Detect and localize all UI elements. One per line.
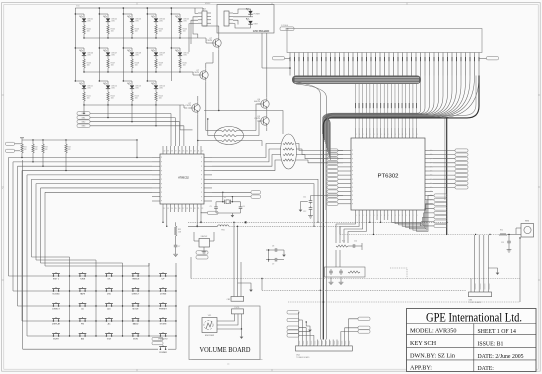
node matrix label 2 <box>152 342 163 345</box>
node VFD grid pin <box>420 53 422 76</box>
wire LED column cathode drop <box>179 105 181 130</box>
switch SW9 DIRECT <box>132 290 134 292</box>
wire U2 bottom mid drops <box>369 220 371 222</box>
node VFD grid pin <box>348 53 350 76</box>
svg-text:C1815: C1815 <box>193 72 200 74</box>
wire row1 bus to Q1 <box>180 37 206 39</box>
node CN4 net label left <box>287 334 299 337</box>
wire key row <box>48 275 176 277</box>
node U1 left pin 9 <box>152 191 160 193</box>
node VFD grid pin <box>411 53 413 76</box>
node U2 bottom pin 13 <box>401 210 403 220</box>
wire row3 bus to Q3 <box>156 104 184 106</box>
node VFD grid pin <box>469 53 471 76</box>
node U2 top pin 6 <box>376 128 378 138</box>
svg-text:R51: R51 <box>500 230 503 232</box>
wire LED row bus <box>84 37 180 39</box>
node U1 top pin 3 <box>170 146 172 154</box>
node U2 bottom pin 7 <box>380 210 382 220</box>
node U2 top pin 10 <box>390 128 392 138</box>
node U1 left pin 8 <box>152 187 160 189</box>
node U2 top pin 13 <box>401 128 403 138</box>
wire comb curl <box>326 76 444 145</box>
node VFD grid pin <box>334 53 336 76</box>
switch SW10 DOWN <box>160 290 162 292</box>
svg-text:19: 19 <box>190 208 192 210</box>
node U2 bottom pin 14 <box>405 210 407 220</box>
svg-text:18: 18 <box>186 208 188 210</box>
svg-text:TREBLE: TREBLE <box>132 279 140 281</box>
wire CN4 pin <box>340 340 342 346</box>
wire VFD bus band <box>292 76 421 84</box>
node U2 bottom pin 15 <box>408 210 410 220</box>
wire LED column feed <box>146 8 148 81</box>
LED D109 <box>147 47 156 49</box>
wire pull-up to bus <box>65 157 67 171</box>
svg-text:MODEL: AVR350: MODEL: AVR350 <box>410 328 456 335</box>
node U2 right pin 8 <box>425 182 433 184</box>
node U1 right pin 8 <box>204 187 212 189</box>
resistor FL2 element 1 <box>283 148 294 150</box>
wire band to PT6302 pin <box>362 84 364 128</box>
wire CN4 pin <box>344 340 346 346</box>
svg-text:100: 100 <box>159 98 162 100</box>
wire CN4 pin <box>332 340 334 346</box>
node U2 bottom pin 16 <box>412 210 414 220</box>
node U2 right pin 9 <box>425 186 433 188</box>
wire band to PT6302 pin <box>365 84 367 128</box>
wire CN4 label right <box>341 332 358 340</box>
capacitor C14 <box>351 245 353 247</box>
svg-text:100: 100 <box>183 65 186 67</box>
node VFD grid pin <box>339 53 341 76</box>
svg-text:P: P <box>161 162 162 164</box>
wire key column <box>148 263 150 336</box>
node KS2 bus label <box>77 120 90 123</box>
switch SW25 FM/AUTO <box>160 335 162 337</box>
svg-text:100: 100 <box>159 65 162 67</box>
node U2 right pin 10 <box>425 191 433 193</box>
switch SW22 AM <box>79 335 81 337</box>
wire U2 bottom fan <box>391 220 434 226</box>
svg-text:A.D: A.D <box>107 308 111 311</box>
wire U1 to FL2 <box>212 160 281 171</box>
svg-text:TUNE: TUNE <box>80 279 86 281</box>
wire comb curl <box>324 76 479 161</box>
node comb right label <box>487 57 499 60</box>
resistor R107 <box>107 56 109 59</box>
wire LED row bus <box>84 104 156 106</box>
svg-text:P: P <box>352 175 353 177</box>
node U1 right pin 10 <box>204 196 212 198</box>
wire band tail B <box>296 84 326 340</box>
svg-text:EXIT 1: EXIT 1 <box>53 279 60 281</box>
svg-text:17: 17 <box>183 208 185 210</box>
svg-text:KS1: KS1 <box>82 117 85 119</box>
wire comb curl <box>327 76 452 149</box>
resistor R22 pull-up <box>32 140 34 144</box>
wire key row <box>48 290 176 292</box>
node VFD label <box>280 27 294 31</box>
wire U2 bottom fan <box>417 196 435 232</box>
svg-text:C12: C12 <box>303 211 306 213</box>
svg-text:AT89C52: AT89C52 <box>178 176 189 180</box>
wire stepped <box>390 268 407 279</box>
resistor FL1 element 0 <box>221 129 237 131</box>
switch SW6 SOUND <box>53 290 55 292</box>
wire CN4 label <box>299 328 306 340</box>
LED D102 <box>99 13 108 15</box>
node U2 right pin 3 <box>425 162 433 164</box>
svg-text:DATE:: DATE: <box>478 366 495 372</box>
svg-text:VR1: VR1 <box>208 315 212 317</box>
node VFD grid pin <box>433 53 435 76</box>
node U2 left pin label <box>327 202 338 205</box>
wire key column <box>175 263 177 336</box>
node U1 bottom pin 11 <box>200 204 202 212</box>
wire reset <box>194 240 199 242</box>
wire key row <box>48 335 176 337</box>
svg-text:DISPLAY: DISPLAY <box>52 323 61 326</box>
node VFD grid pin <box>316 53 318 76</box>
ground crystal <box>215 211 217 213</box>
node VFD grid pin <box>393 53 395 76</box>
wire U2 bottom fan <box>399 217 434 225</box>
transistor Q2 <box>200 71 208 79</box>
wire band to PT6302 pin <box>394 84 396 128</box>
node U2 net label <box>434 216 447 219</box>
svg-text:P: P <box>201 196 202 198</box>
svg-text:39: 39 <box>167 151 169 153</box>
wire pull-up to bus <box>42 157 44 166</box>
svg-text:APP.BY:: APP.BY: <box>410 365 432 372</box>
wire CN6 pin <box>483 235 485 292</box>
svg-text:P: P <box>161 175 162 177</box>
svg-text:VOLUME BOARD: VOLUME BOARD <box>200 347 251 354</box>
node U2 top pin 1 <box>358 128 360 138</box>
node VFD grid pin <box>406 53 408 76</box>
resistor FL2 element 2 <box>283 153 294 155</box>
wire to IR <box>507 233 521 235</box>
wire key matrix bus <box>13 161 152 163</box>
svg-text:100: 100 <box>111 98 114 100</box>
node U1 right pin 2 <box>204 161 212 163</box>
wire CN4 pin <box>309 340 311 346</box>
node U2 right pin 5 <box>425 170 433 172</box>
node U2 right pin 12 <box>425 199 433 201</box>
node U2 left pin 11 <box>343 195 351 197</box>
switch SW26 POWER <box>160 348 162 350</box>
node U2 net label <box>434 203 447 206</box>
node U2 right pin label <box>455 157 468 160</box>
node U2 bottom pin 2 <box>362 210 364 220</box>
svg-text:100: 100 <box>135 98 138 100</box>
node U1 top pin 11 <box>200 146 202 154</box>
node U2 net label <box>434 224 447 227</box>
node VFD grid pin <box>330 53 332 76</box>
node U2 bottom pin 3 <box>365 210 367 220</box>
svg-text:P: P <box>430 171 431 173</box>
node U2 left pin label <box>327 165 338 168</box>
node U2 right pin label <box>455 165 468 168</box>
wire display bus trunk A <box>446 118 448 235</box>
node U1 right pin 11 <box>204 200 212 202</box>
svg-text:MODE: MODE <box>133 309 140 311</box>
node VFD grid pin <box>456 53 458 76</box>
wire CN4 pin <box>317 340 319 346</box>
oscillator box <box>325 267 366 277</box>
node KS3 bus label <box>77 124 90 127</box>
node U1 bottom pin 3 <box>170 204 172 212</box>
node U2 right pin label <box>455 174 468 177</box>
svg-text:40: 40 <box>164 151 166 153</box>
node VFD grid pin <box>303 53 305 76</box>
switch SW4 TREBLE <box>132 275 134 277</box>
ground C15 <box>508 245 510 248</box>
transistor Q4 <box>261 100 269 108</box>
rotary encoder VR1 <box>202 318 217 333</box>
svg-text:STORE: STORE <box>160 324 168 326</box>
wire key matrix bus <box>9 157 153 159</box>
node U2 right pin label <box>455 149 468 152</box>
wire band tail A <box>294 82 320 340</box>
svg-text:P: P <box>161 196 162 198</box>
node CN4 net label left <box>287 326 299 329</box>
capacitor C9 <box>266 259 273 261</box>
wire LED row bus <box>84 71 180 73</box>
svg-text:37: 37 <box>175 151 177 153</box>
svg-text:SOUND: SOUND <box>52 294 60 296</box>
switch SW17 FM <box>79 320 81 322</box>
switch SW21 MUTE <box>53 335 55 337</box>
svg-text:LED BOARD: LED BOARD <box>253 29 269 33</box>
inductor FB1 <box>218 225 221 226</box>
svg-text:C1815: C1815 <box>254 118 261 120</box>
resistor R110 <box>179 56 181 59</box>
node U2 top pin 4 <box>369 128 371 138</box>
node U2 left pin label <box>327 153 338 156</box>
wire key matrix bus <box>41 187 153 189</box>
ground C8 <box>283 253 285 255</box>
node U1 bottom pin 4 <box>173 204 175 212</box>
node U2 right pin 7 <box>425 178 433 180</box>
svg-text:33: 33 <box>190 151 192 153</box>
wire encoder <box>217 314 235 321</box>
node VFD grid pin <box>312 53 314 76</box>
wire band to PT6302 pin <box>372 84 374 128</box>
filter FL2 <box>281 134 297 169</box>
resistor FL2 element 0 <box>283 142 294 144</box>
wire LED board internal <box>233 9 251 13</box>
wire CN4 label right <box>345 328 358 340</box>
wire display bus trunk B <box>323 76 479 340</box>
wire CN4 pin <box>313 340 315 346</box>
svg-text:P: P <box>430 191 431 193</box>
wire key row <box>48 320 176 322</box>
node VFD grid pin <box>298 53 300 76</box>
wire CN4 pin <box>321 340 323 346</box>
switch SW2 TUNE <box>79 275 81 277</box>
wire FL1 in <box>208 135 221 137</box>
node U2 right pin label <box>455 182 468 185</box>
node VFD grid pin <box>465 53 467 76</box>
wire FL1 in <box>206 130 221 132</box>
svg-text:C8: C8 <box>272 246 274 248</box>
node U2 net label <box>434 194 447 197</box>
switch SW11 DIRECT <box>53 305 55 307</box>
svg-text:P: P <box>201 157 202 159</box>
wire trio drops <box>323 301 325 303</box>
capacitor C11 <box>311 195 344 197</box>
LED D103 <box>123 13 132 15</box>
node U2 bottom pin 17 <box>416 210 418 220</box>
node U2 left pin label <box>327 190 338 193</box>
svg-text:16: 16 <box>179 208 181 210</box>
wire row2 bus to Q2 <box>180 71 193 73</box>
resistor R24 pull-up <box>65 140 67 144</box>
wire key matrix bus <box>27 174 152 176</box>
node U2 left pin 4 <box>343 166 351 168</box>
svg-text:31: 31 <box>198 151 200 153</box>
wire comb curl <box>326 76 466 155</box>
svg-text:P: P <box>201 166 202 168</box>
node U1 bottom pin 10 <box>196 204 198 212</box>
resistor R105 <box>179 22 181 25</box>
node U1 top pin 7 <box>185 146 187 154</box>
node U2 left pin label <box>327 169 338 172</box>
node U2 right pin label <box>455 161 468 164</box>
ground volume board <box>241 335 243 337</box>
node U2 right pin 2 <box>425 158 433 160</box>
svg-text:12: 12 <box>164 208 166 210</box>
wire U1 to FL2 <box>212 144 281 158</box>
ground PT6302 caps <box>310 212 312 214</box>
wire CN3 feeds <box>195 8 198 13</box>
wire Q5 down <box>266 127 268 131</box>
wire CN4 pin <box>305 340 307 346</box>
resistor R114 <box>155 89 157 92</box>
capacitor C8 <box>266 249 273 251</box>
svg-text:P: P <box>352 179 353 181</box>
svg-text:100: 100 <box>135 31 138 33</box>
node U1 left pin 5 <box>152 174 160 176</box>
wire CN4 label <box>299 335 314 339</box>
switch SW16 DISPLAY <box>53 320 55 322</box>
wire LED column cathode drop <box>107 105 109 118</box>
wire Q1 emitter to rail <box>218 30 220 37</box>
resistor R101 <box>83 22 85 25</box>
node VFD grid pin <box>366 53 368 76</box>
node U2 right pin label <box>455 186 468 189</box>
node VFD grid pin <box>379 53 381 76</box>
node VFD grid pin <box>451 53 453 76</box>
connector CN6 <box>469 292 492 297</box>
capacitor C15 <box>508 234 510 239</box>
wire LED column cathode drop <box>155 105 157 126</box>
node U1 right pin 7 <box>204 183 212 185</box>
svg-text:P: P <box>352 171 353 173</box>
node U1 bottom pin 6 <box>181 204 183 212</box>
LED D112 <box>99 80 108 82</box>
resistor R112 <box>107 89 109 92</box>
node U1 top pin 6 <box>181 146 183 154</box>
svg-text:BAND: BAND <box>133 323 139 326</box>
node P1 label <box>196 251 208 254</box>
svg-text:P: P <box>430 187 431 189</box>
node U2 top pin 0 <box>355 128 357 138</box>
wire FL1 out <box>237 140 262 142</box>
node U1 top pin 9 <box>192 146 194 154</box>
node U2 right pin 0 <box>425 150 433 152</box>
wire CN4 label <box>299 320 302 340</box>
resistor FL1 element 1 <box>221 134 237 136</box>
LED D108 <box>123 47 132 49</box>
node U1 left pin 2 <box>152 161 160 163</box>
wire U2 bottom fan <box>402 213 434 226</box>
node U1 right pin 3 <box>204 165 212 167</box>
wire Q2 emitter up <box>205 63 207 69</box>
node U1 top pin 4 <box>173 146 175 154</box>
node VFD grid pin <box>321 53 323 76</box>
node KS0 bus label <box>77 112 90 115</box>
svg-text:ENCODER: ENCODER <box>205 335 215 337</box>
node VFD grid pin <box>424 53 426 76</box>
wire VR pair <box>233 222 235 296</box>
svg-text:P: P <box>161 179 162 181</box>
svg-text:P: P <box>352 167 353 169</box>
wire LED column cathode drop <box>131 105 133 122</box>
resistor FL2 element 3 <box>283 159 294 161</box>
svg-text:KS2: KS2 <box>82 121 85 123</box>
svg-text:P: P <box>430 158 431 160</box>
capacitor C12 <box>310 206 312 208</box>
svg-text:14: 14 <box>171 208 173 210</box>
svg-text:DATE: 2/June 2005: DATE: 2/June 2005 <box>478 354 524 360</box>
resistor R106 <box>83 56 85 59</box>
node VFD grid pin <box>370 53 372 76</box>
node VFD grid pin <box>447 53 449 76</box>
node U2 left pin 2 <box>343 158 351 160</box>
ground VR <box>250 288 252 290</box>
svg-text:SHEET 1 OF 14: SHEET 1 OF 14 <box>478 329 516 335</box>
svg-text:35: 35 <box>183 151 185 153</box>
svg-text:X1: X1 <box>224 197 226 199</box>
node U2 left pin 12 <box>343 199 351 201</box>
svg-text:DIRECT: DIRECT <box>52 309 60 311</box>
node U1 right pin 1 <box>204 157 212 159</box>
svg-text:P: P <box>201 162 202 164</box>
resistor R31 <box>175 222 177 226</box>
node U2 top pin 3 <box>365 128 367 138</box>
node VFD grid pin <box>357 53 359 76</box>
wire band to PT6302 pin <box>387 84 389 128</box>
svg-text:P: P <box>352 183 353 185</box>
wire U1 right long 2 <box>212 184 314 227</box>
svg-text:DIRECT: DIRECT <box>132 294 140 296</box>
node U1 left pin 3 <box>152 165 160 167</box>
node U1 left pin 1 <box>152 157 160 159</box>
svg-text:P: P <box>201 188 202 190</box>
title block frame <box>407 309 537 372</box>
wire key matrix bus <box>45 191 152 193</box>
node VFD grid pin <box>289 53 291 76</box>
svg-text:P: P <box>352 203 353 205</box>
node U2 left pin label <box>327 182 338 185</box>
wire comb curl <box>323 76 425 137</box>
wire Q1 collector down <box>218 49 220 110</box>
connector CN4 <box>296 346 353 351</box>
LED D113 <box>123 80 132 82</box>
